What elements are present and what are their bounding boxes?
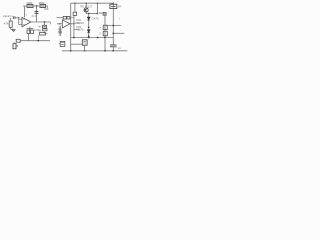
wire R3 top: [10, 18, 12, 21]
wire feedback out: [70, 17, 74, 19]
transistor Q1 internals: [85, 9, 87, 12]
connector J1 tail: [59, 43, 61, 45]
capacitor C4 inner mark: [43, 26, 45, 28]
wire feedback bottom: [27, 27, 34, 30]
wire output: [31, 21, 51, 23]
capacitor C1: [13, 16, 15, 19]
wire Q1 collector riser: [85, 3, 87, 8]
wire right rail: [112, 3, 114, 44]
wire R8 to rail: [37, 35, 39, 41]
connector J1: [60, 41, 65, 46]
svg-text:47k: 47k: [4, 21, 9, 25]
wire feedback riser: [36, 6, 38, 22]
wire left rail: [70, 3, 72, 51]
wire inner rail: [73, 15, 75, 37]
battery BT1 terminal: [17, 45, 18, 46]
capacitor C10: [110, 45, 117, 47]
node N3: [44, 21, 46, 23]
wire stub R2 right: [47, 6, 49, 9]
wire diode rail: [88, 14, 90, 38]
node N19: [84, 50, 86, 52]
node N12: [113, 3, 114, 4]
node N17: [104, 37, 106, 39]
wire R8 stub: [46, 33, 48, 35]
wire Q3 link: [74, 28, 80, 30]
resistor R6: [31, 30, 34, 34]
wire feedback in: [57, 17, 64, 19]
node N13: [112, 25, 114, 27]
node N15: [73, 37, 75, 39]
node N6: [74, 3, 75, 4]
wire R3 bottom: [11, 27, 14, 29]
switch S1: [16, 39, 20, 42]
svg-text:22k: 22k: [44, 7, 49, 11]
capacitor C4 body: [43, 25, 47, 28]
node N16: [88, 37, 90, 39]
resistor R5: [27, 30, 30, 34]
capacitor C10 stub: [112, 47, 114, 51]
node N1: [36, 5, 38, 7]
op-amp U2: [62, 20, 70, 28]
wire loop top: [71, 43, 83, 45]
node N4: [29, 28, 31, 30]
op-amp U1 input marks: [23, 19, 25, 24]
wire F1 down: [84, 45, 86, 51]
svg-text:IC1: IC1: [32, 14, 37, 18]
node N22: [112, 50, 114, 52]
wire Q1 emitter down: [85, 12, 87, 13]
node N21: [104, 50, 106, 52]
wire to inverting input: [19, 18, 22, 25]
resistor R3: [9, 21, 12, 27]
fuse F1 mark: [83, 41, 86, 43]
fuse F1: [82, 40, 87, 45]
wire bias link: [105, 25, 121, 27]
resistor R2 inner mark: [41, 5, 45, 7]
wire R10 riser: [74, 3, 76, 12]
battery BT1: [13, 44, 16, 49]
diode D1: [87, 17, 90, 20]
resistor R10: [73, 12, 76, 15]
wire X1 link: [103, 13, 105, 15]
capacitor C3: [35, 12, 39, 14]
node N18: [59, 23, 60, 24]
resistor R2: [40, 5, 46, 8]
resistor R1: [27, 5, 33, 8]
wire mid link: [86, 13, 97, 15]
node N20: [70, 50, 72, 52]
resistor R13 inner mark: [111, 5, 116, 7]
node N1b: [24, 14, 25, 15]
wire bottom bus: [62, 50, 127, 52]
resistor R1 inner mark: [28, 5, 32, 7]
node N14: [112, 32, 114, 34]
wire input: [15, 17, 18, 19]
wire mid bus: [71, 37, 114, 39]
node N2: [18, 17, 19, 18]
capacitor C2: [58, 26, 62, 36]
diode D1 bar: [87, 19, 90, 21]
node N8: [88, 13, 90, 15]
wire R5 to rail: [28, 34, 30, 41]
node N9: [97, 3, 98, 4]
wire U2 input: [57, 23, 62, 25]
wire output corner down: [50, 22, 52, 24]
resistor R12: [103, 31, 107, 36]
wire ground rail: [20, 40, 50, 42]
diode D2 bar: [87, 32, 90, 34]
resistor R11: [103, 25, 107, 29]
op-amp U2 feedback resistor Rb: [67, 16, 70, 19]
op-amp U2 feedback resistor Ra: [63, 16, 66, 19]
wire op-amp supply riser: [24, 6, 26, 17]
wire C4 down: [44, 31, 46, 34]
connector J1 pins: [61, 43, 64, 45]
wire top supply bus: [71, 2, 114, 4]
op-amp U1: [22, 17, 31, 26]
resistor R13: [110, 4, 117, 8]
wire battery to switch: [14, 42, 16, 43]
wire right top rail: [96, 3, 98, 13]
node N5: [37, 40, 39, 42]
node N7: [86, 3, 87, 4]
node N8b: [97, 13, 99, 15]
resistor R8: [40, 33, 46, 36]
svg-text:signal in: signal in: [3, 14, 13, 18]
diode D2: [87, 30, 90, 33]
svg-text:5R: 5R: [118, 5, 122, 9]
node N18b: [73, 23, 74, 24]
wire V+ rail: [23, 5, 48, 7]
node N16b: [97, 37, 99, 39]
wire mid rail: [104, 14, 106, 51]
component X1 body: [103, 12, 106, 15]
node N11: [88, 35, 90, 37]
svg-text:1u: 1u: [117, 46, 121, 50]
wire Q2 link: [74, 22, 80, 24]
resistor R7: [43, 29, 47, 31]
ground: [11, 29, 15, 31]
wire output link: [113, 32, 124, 34]
svg-text:OA70: OA70: [92, 16, 100, 20]
node N10: [88, 26, 90, 28]
capacitor C4: [44, 22, 46, 25]
wire U2 output: [70, 23, 74, 25]
transistor Q1: [84, 8, 88, 12]
